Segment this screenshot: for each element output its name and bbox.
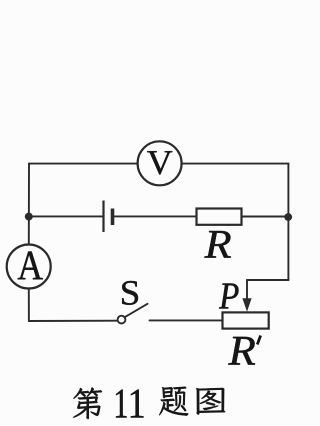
wiper P arrow shaft <box>246 280 248 301</box>
switch S pivot circle <box>118 316 126 324</box>
wire top-right horizontal <box>182 163 289 165</box>
node junction dot right (wire joint) <box>284 213 292 221</box>
wire mid horizontal left (node to battery) <box>29 215 103 217</box>
caption char 图 <box>196 388 225 415</box>
switch S label <box>122 281 138 305</box>
battery positive plate (long) <box>102 201 104 233</box>
resistor R box <box>197 209 242 225</box>
rheostat label R of R' <box>228 337 255 365</box>
caption digit 1 <box>116 390 127 418</box>
caption char 题 <box>159 387 188 416</box>
caption digit 1 <box>131 390 144 418</box>
node junction dot left (wire joint) <box>25 213 33 221</box>
wire left vertical (top wire to node) <box>28 164 30 245</box>
ammeter A circle <box>7 245 51 289</box>
wire bottom-left horizontal <box>29 320 118 322</box>
wiper label P <box>219 284 239 309</box>
wire right vertical <box>287 164 289 280</box>
wire ammeter bottom vertical <box>28 289 30 322</box>
caption char 第 <box>73 388 102 420</box>
rheostat label prime tick <box>257 336 260 345</box>
wire mid horizontal (resistor to right node) <box>242 216 289 218</box>
switch S lever <box>125 304 148 318</box>
voltmeter V label <box>147 151 172 174</box>
wire top-left horizontal <box>29 163 138 165</box>
rheostat R' box <box>223 312 269 328</box>
wire corner horizontal to wiper <box>247 279 289 281</box>
battery negative plate (short) <box>111 209 115 226</box>
wire bottom horizontal right of switch <box>150 319 223 321</box>
wire mid horizontal (battery to resistor) <box>114 215 197 217</box>
ammeter A label <box>18 252 43 280</box>
resistor label R <box>204 231 231 258</box>
voltmeter V circle <box>138 141 182 185</box>
wiper P arrowhead <box>242 298 251 312</box>
